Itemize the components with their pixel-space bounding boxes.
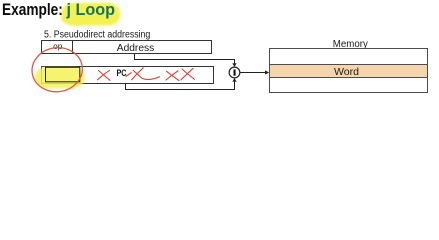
red X 4 bbox=[181, 68, 195, 79]
field divider bbox=[72, 41, 74, 54]
concatenator bar bbox=[234, 69, 236, 75]
red X 1 bbox=[98, 70, 111, 80]
wire concatenator to Memory bbox=[240, 72, 265, 74]
annotation rectangle on PC upper bits bbox=[46, 67, 80, 82]
Memory row divider 1 bbox=[269, 64, 428, 66]
svg-text:Example:: Example: bbox=[2, 1, 63, 19]
svg-text:Address: Address bbox=[117, 43, 155, 54]
concatenator circle bbox=[229, 67, 240, 78]
Word row fill bbox=[270, 65, 427, 77]
wire PC to concatenator bbox=[126, 82, 235, 90]
svg-text:j Loop: j Loop bbox=[66, 1, 116, 19]
svg-text:5. Pseudodirect addressing: 5. Pseudodirect addressing bbox=[44, 29, 150, 40]
PC register box bbox=[42, 67, 214, 84]
highlight blob over "j Loop" bbox=[61, 3, 120, 26]
yellow highlight blob on PC upper bits bbox=[35, 67, 85, 88]
svg-text:Word: Word bbox=[334, 67, 359, 78]
instruction box op|Address bbox=[42, 41, 212, 54]
red X 2 bbox=[132, 68, 160, 80]
Memory row divider 2 bbox=[269, 77, 428, 79]
svg-text:op: op bbox=[53, 41, 63, 51]
wire Address to concatenator bbox=[135, 54, 235, 64]
Memory box bbox=[270, 49, 428, 93]
red tick over PC bbox=[126, 73, 131, 77]
red X 3 bbox=[166, 71, 179, 81]
red ellipse annotation bbox=[29, 44, 85, 95]
